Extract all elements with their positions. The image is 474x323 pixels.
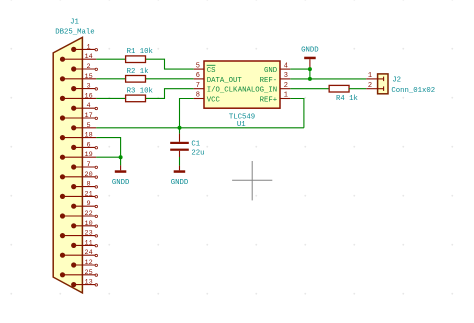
- label R1 10k: [127, 48, 154, 56]
- label GNDD bottom-right: [171, 179, 189, 187]
- svg-text:2: 2: [368, 82, 372, 90]
- wire R3 to U1 pin7 I/O_CLK: [146, 89, 194, 99]
- svg-text:10: 10: [85, 220, 93, 228]
- wire VCC node down to C1: [179, 128, 181, 134]
- wire C1 bottom to GNDD: [179, 157, 181, 166]
- svg-text:25: 25: [85, 269, 93, 277]
- power symbol GNDD (below C1): [174, 166, 186, 173]
- label J1 reference: [70, 19, 79, 27]
- svg-text:14: 14: [85, 53, 93, 61]
- wire J1 pin5 to REF+ riser (VCC net): [96, 127, 304, 129]
- svg-text:I/O_CLK: I/O_CLK: [207, 87, 238, 95]
- svg-text:21: 21: [85, 190, 93, 198]
- label R3 10k: [127, 87, 154, 95]
- node ground junction pin18/pin19: [119, 155, 123, 159]
- label GNDD top: [301, 46, 319, 54]
- svg-text:3: 3: [284, 72, 288, 80]
- wire J1 pin14 to R1: [96, 58, 125, 60]
- wire riser to U1 pin1 REF+: [290, 99, 304, 128]
- wire GND node down to REF- node: [309, 69, 311, 79]
- J2 pin 2: [366, 82, 383, 91]
- U1 pin name ANALOG_IN: [238, 87, 277, 95]
- svg-text:GNDD: GNDD: [301, 46, 319, 54]
- label GNDD bottom-left: [112, 179, 130, 187]
- resistor R1 10k: [126, 56, 146, 63]
- svg-text:R3 10k: R3 10k: [127, 87, 154, 95]
- U1 pin 6 DATA_OUT stub: [194, 72, 204, 80]
- J1 pin 24: [60, 249, 98, 258]
- svg-text:5: 5: [87, 122, 91, 130]
- J1 pin 22: [60, 210, 98, 219]
- U1 pin name REF-: [260, 77, 278, 85]
- J1 pin 15: [60, 73, 96, 82]
- svg-text:13: 13: [85, 279, 93, 287]
- U1 pin name GND: [264, 67, 278, 75]
- svg-text:GNDD: GNDD: [112, 179, 130, 187]
- label TLC549 value: [229, 113, 255, 121]
- J1 pin 14: [60, 53, 96, 62]
- U1 pin 7 I/O_CLK stub: [194, 82, 204, 90]
- J1 pin 20: [60, 171, 98, 180]
- svg-text:1: 1: [284, 92, 288, 100]
- U1 pin 4 GND stub: [280, 62, 290, 70]
- U1 pin 2 ANALOG_IN stub: [280, 82, 290, 90]
- svg-text:8: 8: [196, 92, 200, 100]
- J1 pin 19: [60, 151, 96, 160]
- svg-text:22u: 22u: [191, 150, 204, 158]
- node VCC junction at C1 top: [178, 126, 182, 130]
- wire J1 pin18 down to pin19 net: [96, 138, 120, 158]
- node REF- junction: [308, 77, 312, 81]
- J1 pin 3: [71, 83, 97, 92]
- wire U1 ANALOG_IN to R4: [290, 88, 329, 90]
- power symbol GNDD (top, at U1 GND/REF-): [304, 57, 316, 69]
- J1 pin 2: [71, 63, 97, 72]
- resistor R3 10k: [126, 95, 146, 102]
- J1 pin 23: [60, 230, 98, 239]
- wire ground node down to GNDD: [120, 157, 122, 165]
- svg-text:R2 1k: R2 1k: [127, 68, 150, 76]
- J1 pin 17: [60, 112, 98, 121]
- J1 pin 18: [60, 132, 96, 141]
- svg-text:CS: CS: [207, 67, 216, 75]
- svg-text:C1: C1: [191, 140, 200, 148]
- label Conn_01x02 value: [391, 87, 435, 95]
- svg-text:17: 17: [85, 112, 93, 120]
- wire U1 GND to GNDD node: [290, 68, 310, 70]
- connector J2 Conn_01x02 body: [378, 74, 388, 94]
- J1 pin 13: [71, 279, 97, 288]
- svg-text:J1: J1: [70, 19, 79, 27]
- label R4 1k: [336, 95, 359, 103]
- svg-text:6: 6: [196, 72, 200, 80]
- wire R2 to U1 pin6 DATA_OUT: [146, 78, 194, 80]
- svg-text:5: 5: [196, 62, 200, 70]
- U1 pin 5 CS stub: [194, 62, 204, 70]
- label DB25_Male value: [55, 28, 94, 36]
- U1 pin name DATA_OUT: [207, 77, 243, 85]
- resistor R2 1k: [126, 76, 146, 83]
- J1 pin 10: [71, 220, 97, 229]
- svg-text:20: 20: [85, 171, 93, 179]
- power symbol GNDD (below J1 pins 18/19): [115, 165, 127, 172]
- svg-text:15: 15: [85, 73, 93, 81]
- svg-text:8: 8: [87, 181, 91, 189]
- svg-text:VCC: VCC: [207, 96, 221, 104]
- svg-text:J2: J2: [392, 76, 401, 84]
- label J2 reference: [392, 76, 401, 84]
- svg-text:6: 6: [87, 141, 91, 149]
- svg-text:REF-: REF-: [260, 77, 278, 85]
- svg-text:GNDD: GNDD: [171, 179, 189, 187]
- svg-text:12: 12: [85, 259, 93, 267]
- svg-text:18: 18: [85, 132, 93, 140]
- svg-text:19: 19: [85, 151, 93, 159]
- wire R4 to J2 pin 2: [349, 88, 366, 90]
- svg-text:R4 1k: R4 1k: [336, 95, 359, 103]
- svg-text:22: 22: [85, 210, 93, 218]
- svg-text:DB25_Male: DB25_Male: [55, 28, 94, 36]
- svg-text:7: 7: [87, 161, 91, 169]
- svg-text:Conn_01x02: Conn_01x02: [391, 87, 435, 95]
- resistor R4 1k: [329, 85, 349, 92]
- node GND junction: [308, 67, 312, 71]
- wire U1 REF- to node: [290, 78, 310, 80]
- svg-text:2: 2: [87, 63, 91, 71]
- J1 pin 1: [71, 43, 97, 52]
- svg-text:U1: U1: [237, 121, 246, 129]
- J1 pin 8: [71, 181, 97, 190]
- svg-text:3: 3: [87, 83, 91, 91]
- svg-text:1: 1: [87, 43, 91, 51]
- J1 pin 6: [71, 141, 97, 150]
- svg-text:1: 1: [368, 72, 372, 80]
- svg-text:16: 16: [85, 92, 93, 100]
- U1 pin name VCC: [207, 96, 221, 104]
- U1 pin name CS with overline: [207, 65, 216, 75]
- wire J1 pin15 to R2: [96, 78, 125, 80]
- svg-text:2: 2: [284, 82, 288, 90]
- svg-text:11: 11: [85, 239, 93, 247]
- wire REF- node to J2 pin 1: [310, 78, 366, 80]
- capacitor C1 22u: [170, 134, 189, 157]
- label 22u: [191, 150, 204, 158]
- label U1 reference: [237, 121, 246, 129]
- U1 pin 3 REF- stub: [280, 72, 290, 80]
- svg-text:4: 4: [284, 62, 288, 70]
- J1 pin 12: [71, 259, 97, 268]
- U1 pin name I/O_CLK: [207, 87, 238, 95]
- U1 pin name REF+: [260, 96, 278, 104]
- wire J1 pin19 to ground node: [96, 156, 120, 158]
- J1 pin 11: [71, 239, 97, 248]
- J1 pin 7: [71, 161, 97, 170]
- svg-text:23: 23: [85, 230, 93, 238]
- U1 pin 8 VCC stub: [194, 92, 204, 100]
- J1 pin 9: [71, 200, 97, 209]
- svg-text:R1 10k: R1 10k: [127, 48, 154, 56]
- J1 pin 25: [60, 269, 98, 278]
- svg-text:ANALOG_IN: ANALOG_IN: [238, 87, 277, 95]
- J1 pin 16: [60, 92, 96, 101]
- svg-text:4: 4: [87, 102, 91, 110]
- svg-text:REF+: REF+: [260, 96, 278, 104]
- svg-text:DATA_OUT: DATA_OUT: [207, 77, 243, 85]
- label C1: [191, 140, 200, 148]
- cursor crosshair: [232, 161, 272, 200]
- wire J1 pin16 to R3: [96, 97, 125, 99]
- wire U1 pin8 VCC to VCC node: [180, 99, 194, 128]
- op-amp/ADC U1 TLC549 body: [204, 61, 280, 108]
- J1 pin 5: [71, 122, 96, 131]
- J2 pin 1: [366, 72, 383, 81]
- J1 pin 4: [71, 102, 97, 111]
- label R2 1k: [127, 68, 150, 76]
- U1 pin 1 REF+ stub: [280, 92, 290, 100]
- svg-text:7: 7: [196, 82, 200, 90]
- svg-text:9: 9: [87, 200, 91, 208]
- svg-text:GND: GND: [264, 67, 278, 75]
- J1 pin 21: [60, 190, 98, 199]
- svg-text:24: 24: [85, 249, 93, 257]
- connector J1 DB25_Male body: [53, 37, 82, 293]
- wire R1 to U1 pin5 CS: [146, 59, 194, 69]
